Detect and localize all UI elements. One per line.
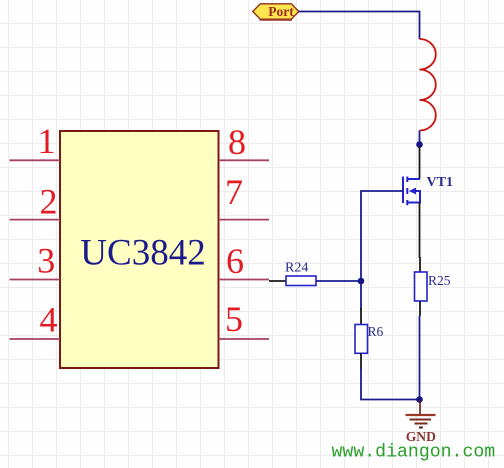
- pin 1 wire: [10, 159, 61, 161]
- wire pin6 to R24: [269, 280, 286, 282]
- ground stub: [419, 400, 421, 416]
- svg-text:8: 8: [228, 122, 246, 162]
- transistor VT1 arrow: [409, 188, 416, 195]
- pin 6 wire: [219, 279, 270, 281]
- svg-text:7: 7: [225, 172, 243, 212]
- ground bar 1: [406, 414, 436, 416]
- junction node gate/R24/R6: [358, 278, 365, 285]
- svg-text:R6: R6: [368, 324, 384, 339]
- wire R6 to ground rail: [361, 368, 420, 400]
- R25 top pin: [419, 257, 421, 272]
- ground bar 3: [415, 423, 428, 425]
- gate wire of VT1: [361, 191, 403, 310]
- svg-text:6: 6: [226, 241, 244, 281]
- junction node at drain: [416, 141, 423, 148]
- svg-text:R24: R24: [285, 261, 308, 276]
- R6 top pin: [360, 308, 362, 325]
- port shadow edge: [260, 19, 293, 21]
- svg-text:www.diangon.com: www.diangon.com: [332, 443, 496, 463]
- svg-text:1: 1: [38, 121, 56, 161]
- svg-text:3: 3: [37, 241, 55, 281]
- pin 2 wire: [10, 219, 61, 221]
- svg-text:5: 5: [225, 299, 243, 339]
- inductor L1: [420, 39, 436, 131]
- pin 5 wire: [219, 338, 270, 340]
- svg-text:R25: R25: [428, 273, 451, 288]
- port connector Port: [253, 4, 299, 19]
- source pin of VT1: [419, 203, 421, 259]
- pin 8 wire: [219, 159, 270, 161]
- pin 4 wire: [10, 338, 61, 340]
- R25 bottom pin: [419, 301, 421, 316]
- ground bar 2: [410, 419, 432, 421]
- IC U1 UC3842 body: [60, 131, 219, 368]
- junction node at ground: [416, 396, 423, 403]
- svg-text:UC3842: UC3842: [80, 233, 205, 274]
- resistor R24 body: [286, 276, 316, 286]
- resistor R25 body: [415, 272, 428, 301]
- R6 bottom pin: [360, 353, 362, 369]
- wire from Port to inductor: [299, 12, 420, 40]
- svg-text:4: 4: [40, 300, 58, 340]
- drain pin of VT1: [419, 146, 421, 179]
- pin 3 wire: [10, 279, 61, 281]
- pin 7 wire: [219, 219, 270, 221]
- wire R24 to junction: [316, 280, 361, 282]
- wire R25 to ground junction: [419, 316, 421, 400]
- ground bar 4: [419, 427, 423, 429]
- resistor R6 body: [355, 325, 368, 354]
- wire inductor to drain: [419, 131, 421, 149]
- svg-text:Port: Port: [268, 4, 294, 19]
- transistor VT1 MOSFET: [403, 177, 420, 206]
- svg-text:VT1: VT1: [427, 175, 453, 190]
- svg-text:2: 2: [40, 182, 58, 222]
